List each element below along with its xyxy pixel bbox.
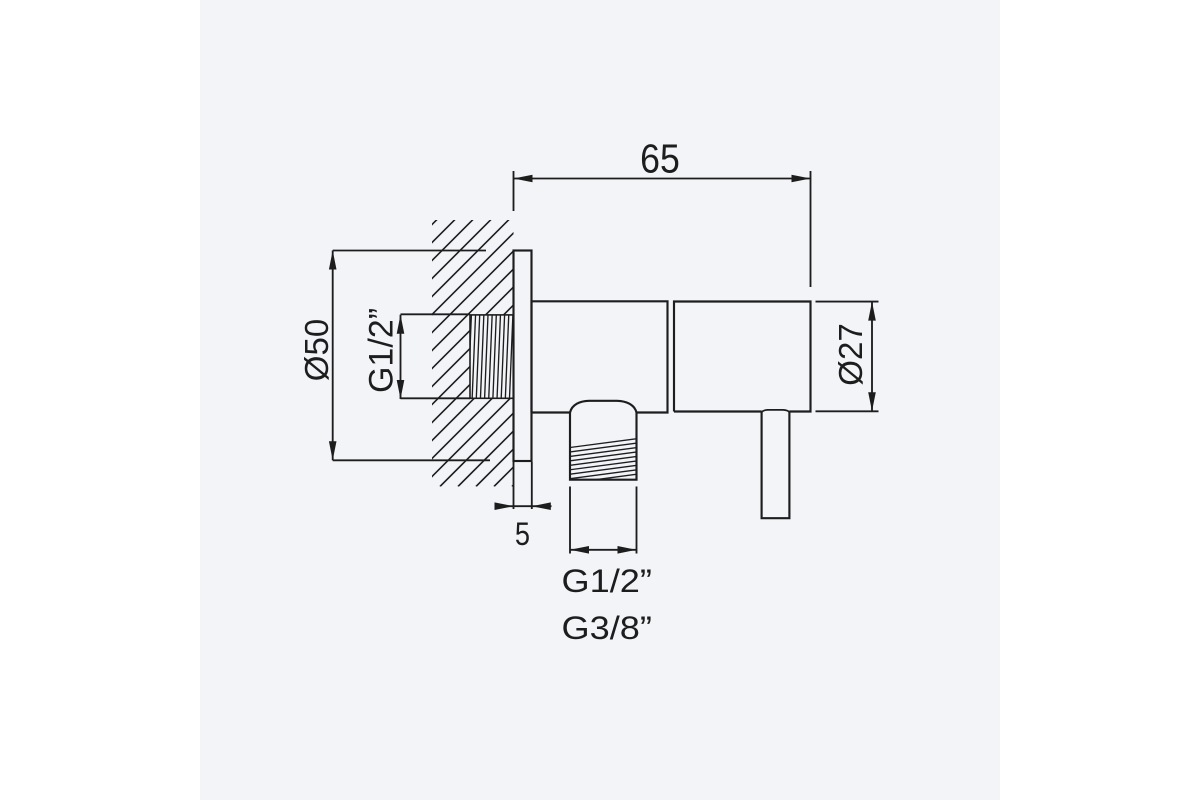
- svg-text:Ø50: Ø50: [298, 319, 335, 381]
- svg-text:G3/8”: G3/8”: [562, 611, 652, 647]
- svg-text:Ø27: Ø27: [832, 323, 869, 385]
- svg-text:5: 5: [515, 517, 530, 553]
- svg-text:G1/2”: G1/2”: [562, 564, 652, 600]
- svg-text:G1/2”: G1/2”: [363, 308, 401, 393]
- svg-text:65: 65: [640, 136, 680, 182]
